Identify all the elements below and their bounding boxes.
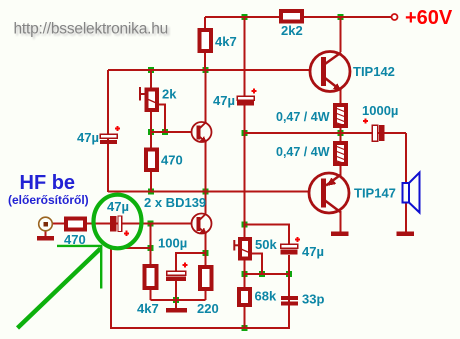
resistor 0.47/4W top (wirewound) (276, 105, 346, 126)
wire BD139 Q1 base y=132 (151, 131, 192, 133)
svg-text:2 x BD139: 2 x BD139 (144, 195, 206, 210)
junction node J4 (203, 67, 209, 73)
capacitor 47u left (77, 126, 120, 145)
resistor 4k7 top (200, 30, 212, 51)
wire TIP147 collector to ground (340, 212, 342, 232)
junction node J2 (338, 14, 344, 20)
svg-text:50k: 50k (255, 237, 277, 252)
svg-text:http://bsselektronika.hu: http://bsselektronika.hu (14, 21, 169, 38)
transistor TIP142 (310, 52, 395, 92)
svg-text:0,47 / 4W: 0,47 / 4W (276, 110, 330, 124)
ground TIP147 (331, 232, 349, 237)
annotation green circle (94, 195, 142, 249)
wire 4k7 top stub x=205 (204, 17, 206, 70)
svg-text:2k2: 2k2 (281, 23, 303, 38)
wire speaker to ground (405, 202, 407, 232)
junction node J13 (203, 250, 209, 256)
wire 470 branch x=151 (150, 132, 152, 192)
ground mid (166, 308, 187, 313)
junction node J5 (148, 129, 154, 135)
wire y=274 node (245, 273, 290, 275)
svg-text:47µ: 47µ (107, 199, 129, 214)
resistor 220 (200, 267, 212, 289)
svg-text:47µ: 47µ (213, 93, 235, 108)
junction node J9 (242, 130, 248, 136)
transistor Q2 BD139 (192, 213, 212, 234)
wire output to 1000u and speaker (341, 132, 407, 134)
wire left drop x=111 (110, 248, 112, 329)
svg-text:47µ: 47µ (302, 244, 324, 259)
capacitor 47u right (281, 237, 324, 259)
junction node J11 (148, 221, 154, 227)
terminal +60V (392, 14, 398, 20)
resistor 68k (239, 289, 250, 305)
wire Q2 emitter to 220 (205, 234, 207, 267)
svg-text:0,47 / 4W: 0,47 / 4W (276, 145, 330, 159)
wire bootstrap rail x=244.5 upper (244, 17, 246, 96)
wire top bus y=70 to TIP142 base (108, 69, 311, 71)
svg-text:4k7: 4k7 (215, 34, 237, 49)
capacitor 47u circled (107, 199, 129, 236)
resistor 470 input (66, 219, 85, 230)
wire speaker drop x=406 (405, 133, 407, 183)
svg-text:(előerősítőről): (előerősítőről) (8, 193, 89, 207)
wire Q1 collector x=205.5 (205, 70, 207, 122)
svg-text:47µ: 47µ (77, 130, 99, 145)
wire between 0.47 resistors (340, 127, 342, 142)
wire Q2 collector x=205.5 (205, 192, 207, 214)
resistor 470 mid (146, 150, 157, 171)
wire 2k wiper (158, 105, 165, 133)
wire y=248 horizontal (111, 247, 151, 249)
junction node J1 (242, 14, 248, 20)
svg-text:TIP147: TIP147 (354, 186, 396, 201)
wire +60V rail y=17 (205, 16, 391, 18)
resistor 0.47/4W bottom (wirewound) (276, 143, 346, 164)
transistor Q1 BD139 (192, 122, 212, 143)
wire 2k branch x=151 (150, 70, 152, 132)
wire emitter node y=253 to 100u (176, 253, 206, 272)
wire feedback tap y=224.5 (245, 225, 290, 245)
svg-text:2k: 2k (162, 87, 177, 102)
svg-text:33p: 33p (302, 292, 324, 307)
junction node J14 (148, 245, 154, 251)
svg-text:4k7: 4k7 (137, 301, 159, 316)
transistor TIP147 (309, 173, 396, 213)
annotation green arrow (18, 246, 103, 328)
speaker (403, 173, 420, 213)
capacitor 33p (281, 292, 324, 307)
capacitor 100u (158, 236, 188, 282)
wire 50k wiper (252, 254, 262, 275)
wire feedback drop x=150.5 (150, 224, 152, 249)
svg-text:68k: 68k (255, 289, 277, 304)
junction node J15 (173, 297, 179, 303)
wire 47u right bottom x=289 (288, 255, 290, 329)
wire mid ground stub (175, 300, 177, 309)
wire bootstrap rail x=244.5 lower (244, 105, 246, 327)
svg-text:220: 220 (197, 301, 219, 316)
junction node J6 (162, 129, 168, 135)
junction node J17 (259, 271, 265, 277)
wire input terminal ground stub (45, 231, 47, 237)
wire left rail x=108 (107, 70, 109, 192)
trimmer 2k (140, 87, 177, 111)
capacitor 1000u (362, 103, 398, 141)
resistor 4k7 bottom (145, 266, 157, 288)
wire bias bottom y=300 (151, 299, 206, 301)
junction node J12 (242, 222, 248, 228)
junction node J19 (242, 325, 248, 331)
svg-text:HF be: HF be (20, 172, 76, 194)
svg-text:100µ: 100µ (158, 236, 187, 251)
wire bottom bus y=327 (111, 327, 289, 329)
ground speaker (397, 232, 415, 237)
wire 220 bottom stub (205, 291, 207, 300)
junction node J8 (203, 189, 209, 195)
svg-text:+60V: +60V (405, 7, 453, 29)
capacitor 47u bootstrap (213, 88, 257, 108)
wire TIP142 emitter to R (340, 90, 342, 104)
junction node J16 (242, 271, 248, 277)
wire 100u bottom stub (175, 280, 177, 300)
junction node J10 (338, 130, 344, 136)
junction node J3 (148, 67, 154, 73)
trimmer 50k (234, 237, 277, 259)
wire output node y=133 (245, 132, 341, 134)
wire 4k7b stubs x=150.5 (150, 248, 152, 300)
svg-text:1000µ: 1000µ (362, 103, 398, 118)
wire R to TIP147 emitter (340, 165, 342, 175)
wire TIP142 collector x=340.5 (340, 17, 342, 52)
ground input (37, 236, 54, 241)
wire mid bus y=191.5 to TIP147 base (108, 191, 310, 193)
wire Q1 emitter x=205.5 (205, 142, 207, 192)
junction node J7 (148, 189, 154, 195)
wire input line y=223.5 (52, 223, 192, 225)
junction node J18 (286, 271, 292, 277)
input terminal (39, 217, 53, 231)
svg-text:TIP142: TIP142 (353, 64, 395, 79)
resistor 2k2 (281, 11, 302, 22)
svg-text:470: 470 (161, 153, 183, 168)
